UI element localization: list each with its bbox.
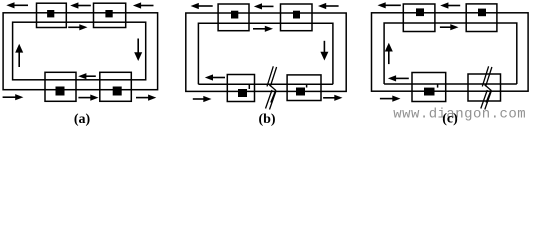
relay C3 square bbox=[424, 88, 435, 96]
B3 wire stub bbox=[248, 84, 250, 89]
wire break (b) slash 2 bbox=[270, 67, 276, 86]
wire break (b) lightning bolt bbox=[269, 85, 275, 103]
arrow outer top-mid (b) bbox=[254, 3, 274, 9]
wire inner loop (b) bbox=[198, 23, 333, 84]
box C4 with break bbox=[468, 74, 501, 101]
arrow inner left up (c) bbox=[385, 43, 393, 64]
wire inner loop (c) bbox=[384, 23, 517, 84]
CT box A2 bbox=[94, 3, 126, 27]
relay box B4 bbox=[287, 75, 321, 101]
CT box B2 bbox=[281, 4, 313, 31]
CT box B1 bbox=[218, 4, 249, 31]
svg-text:(b): (b) bbox=[258, 112, 275, 127]
arrow outer top-mid (a) bbox=[70, 2, 91, 8]
svg-text:(a): (a) bbox=[74, 112, 91, 127]
arrow outer bottom-mid (a) bbox=[78, 95, 98, 101]
arrow outer top-right (a) bbox=[133, 2, 154, 8]
wire inner loop (a) bbox=[13, 22, 146, 80]
CT C1 polarity square bbox=[416, 8, 424, 16]
CT box A1 bbox=[37, 3, 67, 27]
arrow inner right down (b) bbox=[320, 41, 328, 61]
wire outer loop (c) bbox=[372, 13, 529, 91]
CT box C1 bbox=[403, 4, 435, 32]
arrow inner bottom (b) bbox=[205, 74, 225, 80]
svg-text:www.diangon.com: www.diangon.com bbox=[393, 107, 526, 123]
B4 wire stub bbox=[306, 84, 308, 87]
arrow outer top-left (a) bbox=[6, 2, 28, 8]
relay B4 square bbox=[296, 88, 305, 96]
arrow outer bottom-left (c) bbox=[380, 96, 401, 102]
arrow inner top (b) bbox=[253, 26, 273, 32]
arrow outer top-left (b) bbox=[191, 3, 213, 9]
arrow inner left up (a) bbox=[15, 44, 23, 67]
arrow outer top-right (b) bbox=[318, 3, 339, 9]
arrow outer top-mid (c) bbox=[440, 2, 460, 8]
relay A3 square bbox=[56, 87, 65, 96]
wire break (c) slash 2 bbox=[486, 67, 492, 86]
relay box A3 bbox=[45, 72, 76, 101]
CT C2 polarity square bbox=[478, 9, 486, 17]
arrow inner right down (a) bbox=[134, 39, 142, 62]
wire break (c) slash 3 bbox=[481, 90, 488, 109]
arrow outer bottom-right (b) bbox=[323, 95, 342, 101]
wire inner bottom (b) bbox=[198, 83, 333, 85]
wire break (c) slash 4 bbox=[485, 92, 491, 110]
wire outer loop (b) bbox=[186, 13, 346, 91]
CT B1 polarity square bbox=[231, 11, 238, 19]
wire break (c) slash 1 bbox=[482, 66, 488, 86]
arrow outer bottom-left (a) bbox=[3, 94, 24, 100]
arrow inner top (c) bbox=[440, 24, 459, 30]
relay box A4 bbox=[100, 72, 132, 101]
arrow outer bottom-left (b) bbox=[193, 96, 212, 102]
CT A2 polarity square bbox=[105, 10, 112, 17]
wire break (b) slash 3 bbox=[266, 90, 273, 109]
arrow outer bottom-right (a) bbox=[136, 95, 156, 101]
CT A1 polarity square bbox=[47, 10, 54, 17]
wire break (b) slash 4 bbox=[270, 92, 276, 110]
wire break (c) lightning bolt bbox=[485, 85, 491, 103]
relay box C3 bbox=[412, 73, 446, 102]
arrow outer top-left (c) bbox=[378, 2, 401, 8]
C3 wire stub bbox=[437, 84, 439, 88]
CT B2 polarity square bbox=[293, 11, 300, 19]
CT box C2 bbox=[466, 4, 497, 32]
arrow inner bottom (c) bbox=[388, 75, 409, 81]
arrow inner bottom (a) bbox=[78, 73, 96, 79]
relay B3 square bbox=[238, 89, 247, 97]
wire inner bottom (c) bbox=[384, 83, 517, 85]
relay A4 square bbox=[113, 87, 122, 96]
relay box B3 bbox=[227, 75, 254, 102]
arrow inner top (a) bbox=[68, 24, 87, 30]
svg-text:(c): (c) bbox=[442, 112, 458, 127]
wire outer loop (a) bbox=[3, 13, 158, 90]
wire break (b) slash 1 bbox=[267, 66, 273, 86]
